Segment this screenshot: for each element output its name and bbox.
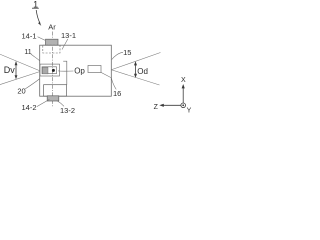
angle arrow Dv (double-headed vertical) xyxy=(15,61,18,79)
angle arrow Od (double-headed vertical) xyxy=(134,61,137,78)
camera module outer housing xyxy=(40,64,60,76)
svg-text:13-1: 13-1 xyxy=(61,31,76,40)
leader Op xyxy=(58,70,73,72)
svg-text:Z: Z xyxy=(154,104,159,111)
imaging unit inner box xyxy=(42,67,57,74)
svg-text:X: X xyxy=(181,77,186,84)
axis Ar (vertical dash-dot) xyxy=(51,32,53,108)
main housing 10 (outline box) xyxy=(40,45,112,96)
svg-text:15: 15 xyxy=(123,48,131,57)
window 16 (right slot rect) xyxy=(88,66,101,73)
leader 14-2 xyxy=(37,99,50,106)
leader 14-1 xyxy=(38,37,45,41)
svg-text:16: 16 xyxy=(113,89,121,98)
coordinate axes xyxy=(154,77,192,114)
leader 16 (to slot corner) xyxy=(101,72,116,89)
svg-text:11: 11 xyxy=(24,49,31,56)
display ray upper-right xyxy=(111,53,160,70)
svg-text:Dv: Dv xyxy=(4,65,15,75)
label 1 (figure number, underlined) xyxy=(32,0,39,9)
field-of-view ray lower-left xyxy=(0,72,40,85)
block 13-2 (bottom inner rect) xyxy=(44,85,67,97)
leader arrow from 1 to housing xyxy=(36,10,41,26)
Z axis (left) xyxy=(161,104,181,106)
svg-text:13-2: 13-2 xyxy=(60,106,75,115)
sensor block (gray fill, left of pupil) xyxy=(42,67,48,74)
leader 11 xyxy=(31,54,40,61)
leader 20 xyxy=(25,79,40,89)
svg-text:Op: Op xyxy=(74,67,85,76)
display ray lower-right xyxy=(111,70,159,85)
block 14-1 (top gray block) xyxy=(46,39,59,45)
block 14-2 (bottom gray block) xyxy=(47,96,59,101)
X axis (up) xyxy=(182,86,184,104)
hidden part 13-1 (dashed rect inside top) xyxy=(43,45,60,53)
leader 13-1 xyxy=(62,39,68,50)
svg-text:Y: Y xyxy=(187,107,192,114)
svg-text:20: 20 xyxy=(17,87,25,96)
internal partition (L line) xyxy=(63,61,67,84)
svg-text:14-2: 14-2 xyxy=(21,103,36,112)
svg-text:Od: Od xyxy=(137,67,148,76)
field-of-view ray upper-left xyxy=(0,54,40,70)
leader 15 xyxy=(112,52,123,59)
pupil point Op (dot) xyxy=(52,69,55,72)
leader 13-2 xyxy=(57,101,64,107)
svg-text:14-1: 14-1 xyxy=(21,31,36,40)
Y axis origin (toward viewer: circle with dot) xyxy=(181,103,186,108)
svg-text:Ar: Ar xyxy=(48,22,56,31)
